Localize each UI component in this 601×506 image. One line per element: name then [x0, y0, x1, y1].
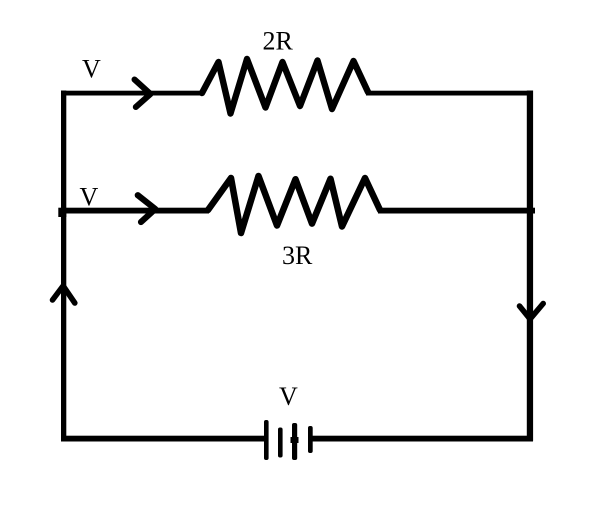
svg-text:V: V [279, 382, 298, 411]
svg-text:V: V [80, 183, 99, 212]
resistor 3R [208, 176, 380, 233]
current arrow top branch [135, 80, 151, 108]
current arrow up on left wire [53, 286, 75, 303]
wire second branch right segment [378, 208, 535, 214]
wire top branch left segment [61, 91, 203, 96]
svg-text:3R: 3R [282, 241, 313, 270]
wire left vertical [61, 91, 66, 442]
wire right vertical [527, 91, 533, 441]
battery plate 2 (short) [278, 428, 283, 458]
wire bottom right segment [310, 436, 533, 442]
battery plate 3 (long) [292, 423, 297, 460]
current arrow down on right wire [520, 304, 544, 320]
battery plate 4 (short) [308, 426, 313, 453]
wire top branch right segment [366, 91, 533, 96]
battery V [264, 420, 313, 460]
resistor 2R [202, 59, 368, 114]
current arrow second branch [138, 195, 156, 222]
wire bottom left segment [61, 436, 266, 442]
wire second branch left segment [61, 208, 209, 214]
svg-text:2R: 2R [263, 27, 294, 56]
battery plate 1 (long) [264, 420, 269, 460]
svg-text:V: V [82, 55, 101, 84]
junction node at left wire and second branch [58, 208, 66, 217]
